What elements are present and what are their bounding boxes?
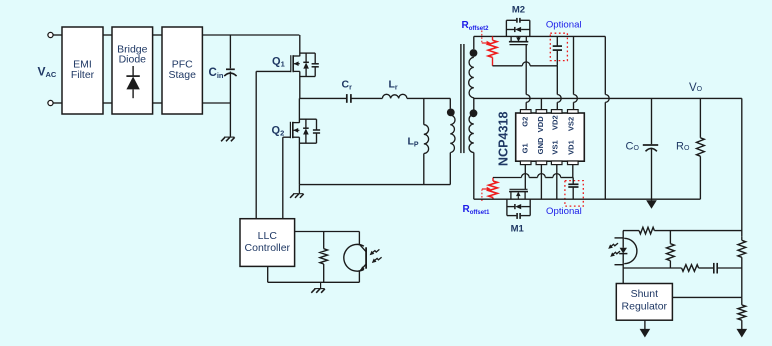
capacitor M1 coss [507,215,517,217]
node primary phase dot [447,109,455,117]
wire [407,97,450,99]
inductor Lr [382,94,407,98]
wire half-bridge node to Cr [299,97,346,99]
svg-text:Controller: Controller [245,242,291,254]
transistor optocoupler phototransistor [344,244,364,271]
svg-text:G1: G1 [521,142,530,153]
capacitor Q1 coss [314,53,316,64]
transistor M1 [510,192,512,199]
wire [153,34,162,36]
wire [103,102,112,104]
svg-text:GND: GND [536,137,545,154]
ground [320,282,322,288]
wire secondary top lead [473,36,475,49]
wire [644,320,646,329]
leader Roffset2 [481,31,483,43]
svg-text:Optional: Optional [546,206,582,217]
wire VD2 [556,66,558,95]
svg-text:VS1: VS1 [551,139,560,154]
diode Q1 body [305,53,307,62]
node VAC- terminal [48,100,53,105]
diode Q2 body [305,119,307,128]
op-amp U1 NCP4318 body [516,113,585,161]
wire Lp top lead [423,98,425,124]
block LLC Controller [240,219,295,267]
wire primary bottom lead [449,153,451,185]
svg-text:Optional: Optional [546,19,582,30]
wire [103,34,112,36]
pin top 4 [568,110,579,114]
diode M2 body [506,29,514,31]
transformer core [460,44,462,153]
resistor divider upper [741,237,743,241]
svg-text:VDD: VDD [536,116,545,133]
node secondary top phase dot [470,49,478,57]
wire LLC return [267,266,269,282]
svg-text:VS2: VS2 [567,117,576,131]
optional box top [550,33,567,60]
wire VS1 [556,165,558,200]
resistor feedback mid [669,231,671,244]
icon light arrows in [370,251,375,255]
wire M1 branch left [506,199,508,215]
wire [53,102,62,104]
resistor opto bias [639,227,654,234]
capacitor Cin [226,68,235,70]
diode bridge symbol [132,66,134,76]
wire secondary top rail [474,35,606,37]
ground [224,136,234,138]
wire Q1 gate [256,70,291,72]
wire [229,35,231,68]
capacitor Q2 coss [316,119,318,130]
wire [654,230,741,232]
wire Q2 gate [283,136,291,138]
pin top 3 [551,110,562,114]
inductor Lp [424,125,429,154]
capacitor optional top [556,36,558,46]
wire [651,98,653,144]
wire Q1 branch [300,52,315,54]
wire Roffset2 to VD2 [493,65,523,67]
svg-text:VD2: VD2 [551,115,560,130]
diode M1 body [507,206,515,208]
wire primary bottom rail [299,184,450,186]
transistor Q2 [293,122,300,124]
wire Q2 branch [299,118,316,120]
transistor Q1 [293,55,300,57]
wire M2 gate (G2) [525,45,527,95]
wire VD1 [572,165,574,178]
capacitor M2 coss [506,19,516,21]
wire M2 drain drop [604,36,606,94]
svg-text:Regulator: Regulator [622,301,668,313]
wire M1 branch right [529,199,531,215]
wire Vo rail [474,97,742,99]
svg-text:Filter: Filter [71,69,95,81]
svg-text:NCP4318: NCP4318 [496,111,510,166]
capacitor compensation [713,263,715,274]
block Bridge Diode [112,27,153,114]
wire [623,230,639,232]
wire M2 branch left [505,20,507,36]
wire [699,98,701,137]
inductor transformer secondary lower [469,115,474,153]
wire Q2 drain [298,98,300,122]
svg-text:M1: M1 [511,223,525,234]
resistor divider lower [741,297,743,305]
svg-text:Shunt: Shunt [631,288,659,300]
ground divider return arrow [737,329,748,338]
wire [229,72,231,137]
inductor transformer primary [450,115,455,152]
svg-text:LLC: LLC [258,230,278,242]
svg-text:G2: G2 [521,117,530,127]
block PFC Stage [162,27,202,114]
svg-text:M2: M2 [512,5,525,16]
resistor compensation [682,265,699,272]
inductor transformer secondary upper [469,57,474,98]
ground shunt return arrow [640,329,651,338]
wire [352,97,383,99]
resistor Roffset1 [492,178,494,182]
pin top 1 [520,110,531,114]
wire [651,148,653,201]
node secondary lower phase dot [470,109,478,117]
pin bottom 1 [520,161,531,165]
wire [699,156,701,199]
ground Co return arrow [646,200,657,209]
wire LLC out [295,231,360,233]
wire primary top lead [449,98,451,108]
wire GND [540,165,542,200]
wire VS2 [573,36,575,94]
optional box bottom [565,181,583,207]
pin top 2 [536,110,547,114]
wire [53,34,62,36]
transistor M2 [510,36,512,41]
capacitor optional bottom [572,178,574,185]
wire Vo right drop [741,98,743,236]
wire Roffset1 to VD1 [493,177,521,179]
ground [298,184,300,193]
block EMI Filter [62,27,103,114]
wire VDD [540,98,542,109]
wire [699,267,714,269]
wire [202,34,299,36]
leader Roffset1 [481,190,483,202]
svg-text:Stage: Stage [168,69,196,81]
diode optocoupler LED [624,238,637,263]
icon light arrows out [608,244,613,248]
wire Q2 source [298,137,300,184]
pin bottom 3 [551,161,562,165]
capacitor Co [643,144,658,146]
resistor Roffset2 [492,36,494,40]
wire secondary center tap [473,98,475,115]
capacitor Cr [346,94,348,103]
pin bottom 2 [536,161,547,165]
wire M2 branch right [529,20,531,36]
block Shunt Regulator [616,284,672,321]
wire [202,102,230,104]
node VAC+ terminal [48,32,53,37]
wire [153,102,162,104]
resistor opto pullup [323,232,325,249]
wire Q1 drain [299,35,301,56]
wire Lp bottom lead [423,154,425,185]
pin bottom 4 [568,161,579,165]
wire Q1 source [299,71,301,98]
wire return rail [474,198,699,200]
svg-text:Diode: Diode [119,54,147,66]
wire secondary bottom lead [473,153,475,200]
wire [623,267,682,269]
wire G1 [524,165,526,190]
svg-text:VD1: VD1 [567,139,576,155]
resistor Ro [697,138,705,156]
wire [718,267,742,269]
wire shunt ref [672,296,741,298]
